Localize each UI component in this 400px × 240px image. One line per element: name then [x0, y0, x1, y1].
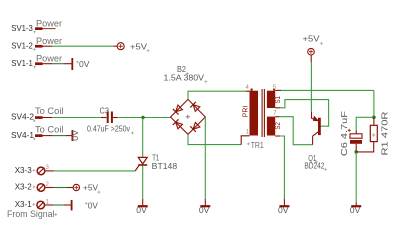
svg-text:0V: 0V — [70, 130, 80, 141]
svg-text:BT148: BT148 — [152, 161, 178, 171]
svg-text:BD242: BD242 — [304, 161, 324, 171]
svg-text:S2: S2 — [275, 122, 282, 130]
svg-text:+5V: +5V — [303, 33, 320, 43]
connector SV4-2 — [11, 106, 64, 122]
svg-text:PRI: PRI — [242, 106, 249, 118]
svg-text:TR1: TR1 — [251, 140, 264, 150]
svg-text:1.5A 380V: 1.5A 380V — [164, 72, 205, 82]
wire T1 cathode to ground — [142, 166, 144, 200]
wire SV1-3 stub — [43, 28, 56, 30]
wire TR1 pin7 (S2 top) to Q1 collector — [275, 116, 279, 118]
core — [261, 89, 263, 137]
svg-text:R1 470R: R1 470R — [380, 112, 390, 156]
ground 0V (S2) — [278, 205, 289, 215]
secondary S1 — [267, 91, 275, 108]
wire rail to R1/C6 — [373, 90, 375, 117]
supply +5V (SV1-2) — [117, 41, 149, 52]
wire TR1 pin5 (S1 top) to R1/C6 rail — [275, 89, 281, 91]
wire C3 to bridge — [113, 117, 118, 119]
emitter with arrow — [311, 112, 313, 119]
svg-text:0.47uF >250v: 0.47uF >250v — [87, 124, 131, 134]
wire TR1 pin6 (S1 bottom) to Q1 base — [275, 107, 280, 109]
secondary S2 — [267, 117, 275, 136]
junction node R1 top — [372, 116, 376, 120]
name TR1 — [247, 142, 250, 145]
wire R1 bottom to junction — [356, 142, 374, 152]
wire SV1-2 to +5V — [43, 45, 53, 47]
junction node at T1 anode — [141, 116, 144, 119]
svg-text:C6 4.7uF: C6 4.7uF — [339, 111, 349, 156]
label From Signal — [7, 209, 57, 219]
svg-text:SV1-2: SV1-2 — [11, 41, 33, 50]
connector SV1-3 — [11, 18, 62, 33]
capacitor C3 — [87, 106, 134, 135]
diamond — [171, 99, 206, 134]
svg-text:SV4-1: SV4-1 — [11, 131, 34, 140]
supply +5V (X3-2) — [73, 183, 100, 194]
wire junction to ground — [355, 152, 357, 203]
diode lower-right (cathode to bottom corner) — [190, 122, 200, 132]
thyristor T1 — [135, 118, 177, 171]
wire TR1 S2 bottom to ground — [275, 135, 280, 137]
svg-text:0V: 0V — [199, 205, 210, 215]
transistor Q1 — [304, 112, 327, 171]
svg-text:To Coil: To Coil — [35, 106, 64, 116]
svg-text:0V: 0V — [350, 205, 361, 215]
transformer TR1 — [242, 85, 282, 150]
wire SV4-2 to C3 — [43, 117, 53, 119]
svg-text:SV4-2: SV4-2 — [11, 113, 34, 122]
svg-text:SV1-3: SV1-3 — [11, 24, 33, 33]
bridge rectifier B2 — [164, 64, 208, 134]
svg-text:Power: Power — [36, 18, 62, 28]
svg-text:X3-3: X3-3 — [15, 166, 32, 175]
svg-text:0V: 0V — [136, 205, 147, 215]
connector X3-1 — [15, 199, 50, 209]
svg-text:SV1-1: SV1-1 — [11, 59, 33, 68]
collector — [313, 132, 319, 136]
capacitor C6 (polarized) — [339, 111, 362, 156]
svg-text:+5V: +5V — [130, 41, 147, 51]
diode upper-right (cathode to top corner) — [190, 102, 200, 112]
svg-text:0V: 0V — [79, 59, 90, 69]
ground 0V (C6/R1) — [350, 205, 361, 215]
wire SV1-1 to 0V — [43, 63, 53, 65]
connector X3-3 — [15, 165, 50, 175]
svg-text:X3-2: X3-2 — [15, 183, 32, 192]
wire X3-1 to 0V — [44, 204, 53, 206]
junction node C6/R1 bottom — [354, 150, 358, 154]
wire X3-3 to T1 gate — [45, 170, 54, 172]
wire junction to C6 — [356, 117, 374, 130]
ground 0V (bridge) — [199, 205, 210, 215]
wire C6 bottom to junction — [355, 144, 357, 152]
supply +5V (Q1 emitter) — [303, 33, 323, 55]
plus mark center — [186, 115, 190, 119]
ground 0V (T1) — [136, 205, 147, 215]
supply 0V (SV4-1, rotated) — [70, 130, 80, 141]
resistor R1 — [370, 112, 389, 156]
diode upper-left (cathode to left corner) — [173, 104, 183, 114]
supply 0V (X3-1) — [72, 200, 99, 210]
svg-text:Power: Power — [36, 36, 62, 46]
diode lower-left (cathode to left corner) — [173, 119, 183, 129]
svg-text:0V: 0V — [278, 205, 289, 215]
wire +5V to Q1 emitter — [310, 55, 312, 62]
svg-text:To Coil: To Coil — [35, 124, 64, 134]
svg-text:+5V: +5V — [83, 183, 98, 193]
svg-text:From Signal: From Signal — [7, 209, 55, 219]
wire bridge bottom to TR1 pin1 — [188, 134, 241, 144]
connector SV1-1 — [11, 53, 62, 68]
primary winding — [250, 91, 259, 136]
wire bridge right to ground — [204, 117, 206, 199]
svg-text:Power: Power — [36, 53, 62, 63]
svg-text:0V: 0V — [88, 200, 98, 210]
connector SV4-1 — [11, 124, 64, 140]
wire X3-2 to +5V — [45, 187, 54, 189]
supply 0V (SV1-1) — [72, 58, 90, 70]
connector SV1-2 — [11, 36, 62, 51]
wire SV4-1 to 0V — [43, 135, 53, 137]
connector X3-2 — [15, 182, 50, 192]
base bar — [318, 118, 321, 135]
wire bridge top to TR1 pin4 — [188, 91, 246, 99]
svg-text:S1: S1 — [275, 96, 282, 104]
